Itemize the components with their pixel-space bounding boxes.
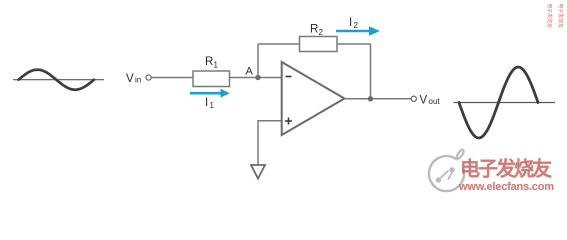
input sine wave (19, 70, 95, 90)
watermark corner (546, 4, 564, 29)
svg-text:2: 2 (319, 28, 324, 37)
svg-text:电子发烧友: 电子发烧友 (460, 157, 552, 181)
wire node A up to feedback (257, 44, 259, 78)
wire Vin to R1 (151, 77, 193, 79)
svg-text:R: R (205, 56, 213, 68)
current arrow I2 (336, 30, 370, 33)
svg-text:V: V (126, 73, 134, 85)
svg-text:R: R (310, 24, 318, 36)
output signal baseline (454, 102, 556, 104)
output node (368, 96, 373, 101)
svg-text:A: A (246, 66, 254, 78)
svg-text:V: V (420, 95, 428, 107)
svg-text:out: out (429, 97, 441, 106)
wire feedback down to output (370, 44, 372, 99)
svg-text:1: 1 (214, 61, 219, 70)
svg-text:2: 2 (354, 21, 359, 30)
svg-text:1: 1 (210, 101, 215, 110)
terminal Vout (411, 96, 416, 101)
svg-text:I: I (349, 17, 352, 29)
terminal Vin (146, 75, 151, 80)
svg-text:www.elecfans.com: www.elecfans.com (458, 181, 554, 193)
node A (255, 75, 260, 80)
svg-text:电子发烧友: 电子发烧友 (546, 4, 553, 29)
resistor R2 (300, 37, 338, 52)
output sine wave (inverted) (459, 67, 538, 138)
wire to non-inverting input (258, 121, 282, 165)
watermark logo (429, 150, 464, 191)
svg-text:电子发烧友: 电子发烧友 (557, 4, 564, 29)
watermark text (458, 157, 554, 193)
output wire (345, 98, 412, 100)
current arrow I1 (190, 92, 221, 95)
plus sign (285, 118, 292, 125)
wire R1 to node A (230, 77, 283, 79)
resistor R1 (193, 71, 230, 87)
wire feedback right segment (337, 43, 371, 45)
minus sign (286, 76, 292, 78)
wire feedback left segment (258, 43, 300, 45)
op-amp U1 (282, 62, 345, 135)
svg-text:I: I (205, 97, 208, 109)
ground (251, 165, 265, 179)
input signal baseline (13, 79, 104, 81)
svg-text:in: in (135, 76, 141, 85)
